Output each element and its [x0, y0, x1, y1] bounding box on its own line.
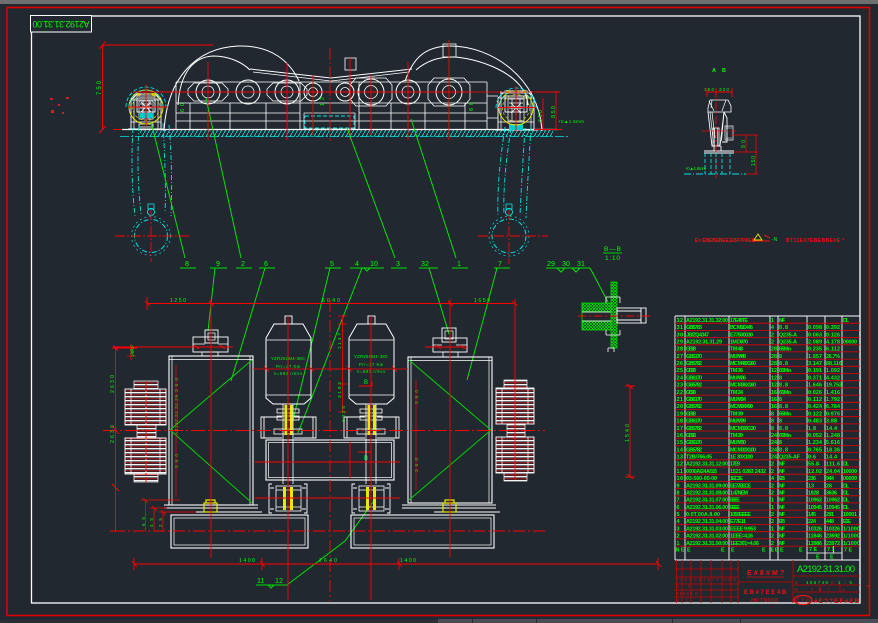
svg-text:10: 10 — [370, 259, 378, 268]
top-left drawing number box — [31, 16, 92, 33]
svg-text:JB/T9008: JB/T9008 — [750, 598, 778, 604]
BB centerline — [578, 315, 650, 317]
bearing block right — [352, 484, 390, 513]
right inner hump — [416, 57, 528, 105]
top bracket center — [345, 58, 356, 70]
BB hub flanges — [606, 297, 620, 352]
bottom gray status strip — [0, 620, 878, 623]
table row lines — [675, 323, 860, 546]
leader 32 — [419, 268, 449, 334]
bearing left yellow fills — [283, 487, 286, 510]
left stack lower tabs — [134, 474, 158, 482]
leader 2 — [206, 98, 252, 268]
svg-text:+0▲1.5mm: +0▲1.5mm — [558, 119, 584, 124]
svg-text:E: E — [687, 548, 691, 554]
beam-sprocket connector right — [487, 96, 498, 118]
svg-text:A2192.31.31.00: A2192.31.31.00 — [797, 564, 855, 575]
A view foundation cyan box — [705, 153, 730, 174]
A view top dim line — [707, 88, 732, 97]
beam top profile — [250, 69, 412, 78]
svg-text:7 E: 7 E — [809, 547, 817, 553]
svg-text:486746: 486746 — [806, 580, 828, 585]
svg-text:#E??EF#EB: #E??EF#EB — [814, 598, 860, 605]
right box top bracket — [433, 328, 467, 357]
svg-text:3: 3 — [396, 259, 400, 268]
left sprocket inner star — [139, 100, 153, 114]
right sprocket cyan gland — [509, 124, 523, 130]
B-B section view — [578, 282, 650, 352]
svg-text:650: 650 — [538, 110, 544, 122]
red horizontal centerline through wheels — [133, 91, 470, 93]
table header row — [807, 546, 842, 553]
A view right dims — [731, 135, 758, 174]
svg-text:29: 29 — [547, 259, 555, 268]
leader 1 — [411, 119, 468, 268]
wheel W5 — [336, 83, 354, 101]
BB shaft — [617, 308, 646, 323]
right chain strands — [498, 126, 531, 218]
wheel W6 — [350, 78, 392, 106]
svg-text:?: ? — [866, 585, 869, 591]
top dim texts — [170, 298, 490, 304]
svg-text:E: E — [731, 548, 735, 554]
wheel W7 — [396, 80, 420, 104]
svg-text:12: 12 — [275, 576, 283, 585]
red technical note line — [695, 238, 844, 244]
right chain guide stack upper — [496, 388, 534, 424]
A view ground line cyan — [684, 173, 746, 175]
leader 6 — [231, 268, 275, 381]
left chain hook circle — [135, 220, 168, 253]
beam verticals — [176, 82, 487, 129]
stray red dimension specks — [50, 97, 69, 114]
red vertical centerlines — [146, 300, 515, 601]
svg-text:8: 8 — [185, 259, 189, 268]
M1 coupling shaft — [274, 404, 302, 484]
wheel W4 — [304, 83, 322, 101]
red horizontal centerlines — [103, 347, 545, 531]
right dimension lines — [498, 92, 562, 130]
right base flange plates — [402, 505, 500, 512]
red stub at baseline left — [113, 129, 122, 131]
M2 coupling yellow shaft fills — [368, 405, 371, 435]
svg-text:1650: 1650 — [474, 298, 490, 304]
svg-text:9: 9 — [216, 259, 220, 268]
svg-text:3182: 3182 — [337, 382, 343, 398]
svg-text:A2192.31.31.29: A2192.31.31.29 — [174, 395, 180, 435]
title block — [675, 560, 869, 605]
top gray window strip — [0, 0, 878, 4]
svg-text:E: E — [799, 548, 803, 554]
box inner dim texts — [174, 378, 420, 472]
M2 side brackets — [344, 417, 365, 438]
right hook link — [506, 209, 513, 216]
top assembly view — [97, 40, 584, 264]
M2 coupling shaft — [357, 404, 385, 484]
svg-text:5: 5 — [330, 259, 334, 268]
svg-text:E: E — [816, 555, 820, 561]
wheel W8 — [428, 78, 470, 106]
svg-text:1 1: 1 1 — [676, 598, 689, 603]
wheel W3 — [267, 80, 307, 104]
center recess box — [304, 113, 355, 129]
wheel W1 — [188, 80, 228, 104]
svg-text:BT11E#7EBEBBE#E *: BT11E#7EBEBBE#E * — [786, 238, 844, 244]
right vertical dimension — [625, 384, 635, 479]
svg-text:E: E — [795, 580, 798, 585]
left box top bracket — [193, 330, 228, 356]
svg-text:360: 360 — [414, 458, 420, 472]
left arch — [164, 46, 299, 131]
right stack middle link — [507, 424, 525, 437]
A direction detail view — [684, 68, 758, 178]
svg-text:11: 11 — [257, 576, 264, 585]
BB hub tube hatched — [582, 303, 611, 312]
svg-text:E: E — [831, 580, 834, 585]
right foundation base — [351, 515, 494, 548]
leader 5 — [292, 268, 341, 424]
svg-text:1250: 1250 — [170, 298, 186, 304]
motor span dimension — [253, 366, 408, 372]
svg-text:30: 30 — [562, 259, 570, 268]
svg-text:1400: 1400 — [239, 558, 255, 564]
svg-text:150: 150 — [751, 156, 757, 166]
svg-text:150: 150 — [704, 87, 714, 92]
right chain guide stack lower — [496, 437, 534, 473]
small left dim — [127, 344, 136, 360]
BOM parts table — [675, 316, 860, 561]
right stack upper tabs — [504, 380, 527, 388]
title cells — [738, 560, 793, 603]
left sprocket yellow dots — [137, 93, 140, 96]
svg-text:360: 360 — [174, 378, 180, 392]
left chain strands — [132, 123, 172, 216]
right sprocket yellow circle — [499, 91, 533, 125]
right stack lower tabs — [504, 473, 527, 481]
beam horizontals — [176, 82, 487, 121]
right drum box — [408, 357, 492, 503]
right anchor pad yellow — [443, 500, 456, 512]
leader 3 — [347, 128, 407, 268]
svg-text:4: 4 — [355, 259, 359, 268]
M2 vertical dimension chain — [330, 316, 348, 413]
right chain wrap arc — [496, 88, 536, 108]
svg-text:31: 31 — [577, 259, 585, 268]
svg-text:E: E — [762, 548, 766, 554]
svg-text:B—B: B—B — [604, 246, 621, 253]
top dimension line — [145, 297, 518, 310]
bearing right yellow fills — [366, 487, 369, 510]
svg-text:7 1: 7 1 — [827, 547, 835, 553]
left anchor pad yellow — [204, 500, 217, 512]
right sprocket inner star — [509, 101, 523, 115]
part label leader lines — [151, 98, 608, 588]
BB web plate hatched — [611, 282, 617, 348]
center cyan dashed box — [305, 116, 354, 128]
baseline — [122, 129, 557, 131]
motor M2 nameplate text — [354, 354, 388, 374]
svg-text:-N: -N — [772, 237, 778, 243]
svg-text:360: 360 — [174, 454, 180, 468]
M1 side brackets — [261, 417, 282, 438]
note inline symbol — [752, 234, 778, 243]
B-B section title — [604, 246, 621, 262]
right hook centerlines — [478, 235, 548, 237]
bearing block left — [269, 484, 307, 513]
svg-text:A2192.31.31.00: A2192.31.31.00 — [33, 19, 90, 29]
red sprocket centerline left — [128, 106, 168, 108]
svg-text:CTO: CTO — [796, 599, 810, 605]
bottom dim texts — [239, 558, 416, 564]
left chain guide stack lower — [125, 438, 166, 474]
red dim through beam right — [470, 91, 558, 93]
left chain guide stack upper — [125, 389, 166, 425]
left sprocket housing — [128, 94, 164, 129]
revision grid — [675, 560, 738, 603]
svg-text:1: 1 — [457, 259, 461, 268]
table top line — [675, 315, 860, 317]
left hook link — [148, 209, 155, 216]
table header bottom line — [675, 559, 860, 561]
svg-text:NE: NE — [676, 548, 685, 554]
A view centerline — [702, 88, 736, 178]
left stack middle link — [137, 425, 156, 438]
motor M2 — [349, 316, 394, 404]
left vertical dimension — [110, 345, 137, 531]
left hook centerlines — [115, 235, 190, 237]
motor M1 nameplate text — [271, 356, 305, 376]
svg-text:1:10: 1:10 — [605, 255, 620, 262]
company logo oval — [794, 596, 812, 605]
right sprocket yellow dots — [506, 90, 509, 93]
left foundation base — [171, 515, 308, 548]
top bracket right — [443, 44, 456, 57]
svg-text:850: 850 — [551, 106, 557, 118]
left drum box — [169, 356, 253, 505]
left box X brace — [170, 360, 252, 503]
svg-text:+0▲1.5mm: +0▲1.5mm — [685, 166, 706, 171]
left chain wrap arc — [126, 87, 166, 107]
right box X brace — [409, 360, 491, 500]
gearbox housing — [266, 440, 394, 480]
left base flange plates — [164, 505, 262, 512]
red wheel centerlines vertical — [146, 40, 516, 141]
svg-text:7: 7 — [498, 259, 502, 268]
left stack upper tabs — [134, 381, 158, 389]
svg-text:320: 320 — [719, 87, 729, 92]
svg-text:6: 6 — [264, 259, 268, 268]
svg-text:B: B — [364, 380, 368, 386]
svg-text:180: 180 — [130, 347, 135, 357]
leader 7 — [467, 268, 510, 380]
svg-text:1:5: 1:5 — [838, 580, 852, 585]
box inner dim lines — [176, 365, 416, 497]
right arch — [405, 46, 542, 131]
bottom front elevation view — [103, 297, 661, 601]
leader 9 — [208, 268, 227, 331]
svg-text:E: E — [780, 548, 784, 554]
svg-text:EE: EE — [771, 548, 779, 554]
svg-text:3025: 3025 — [341, 406, 347, 422]
svg-text:32: 32 — [421, 259, 429, 268]
leader 11 12 — [256, 498, 376, 588]
svg-text:E 7: E 7 — [676, 584, 691, 589]
left dimension line 750 — [99, 41, 213, 133]
bottom left small dims — [141, 498, 196, 531]
svg-text:360: 360 — [414, 390, 420, 404]
right chain hook circle — [492, 219, 526, 253]
A view hook body — [704, 100, 734, 153]
bracket cross ticks — [194, 345, 465, 349]
left sprocket yellow circle — [129, 90, 163, 124]
svg-text:750: 750 — [97, 80, 103, 95]
svg-text:2: 2 — [241, 259, 245, 268]
right sprocket housing — [495, 91, 537, 130]
ground dash-dot line — [120, 136, 570, 138]
svg-text:1400: 1400 — [400, 558, 416, 564]
ground hatch band — [140, 130, 553, 137]
svg-text:E: E — [721, 548, 725, 554]
table column lines — [675, 316, 860, 560]
left sprocket cyan gland — [140, 113, 153, 118]
svg-text:A B: A B — [712, 68, 726, 74]
svg-text:E: E — [830, 555, 834, 561]
motor M1 — [266, 316, 311, 404]
part number labels — [185, 259, 585, 585]
svg-text:E> EBEBEBEE,EBF7PAEB: E> EBEBEBEE,EBF7PAEB — [695, 238, 756, 244]
svg-text:7 E: 7 E — [844, 548, 852, 554]
bottom dimension line — [132, 558, 661, 570]
leader 8 — [151, 122, 196, 268]
M1 coupling yellow shaft fills — [285, 405, 288, 435]
svg-text:E5899 E: E5899 E — [676, 591, 698, 596]
wheel W2 — [236, 80, 260, 104]
leader 4 10 — [298, 268, 384, 433]
left inner hump — [178, 56, 250, 105]
leader 29 30 31 — [546, 268, 608, 302]
